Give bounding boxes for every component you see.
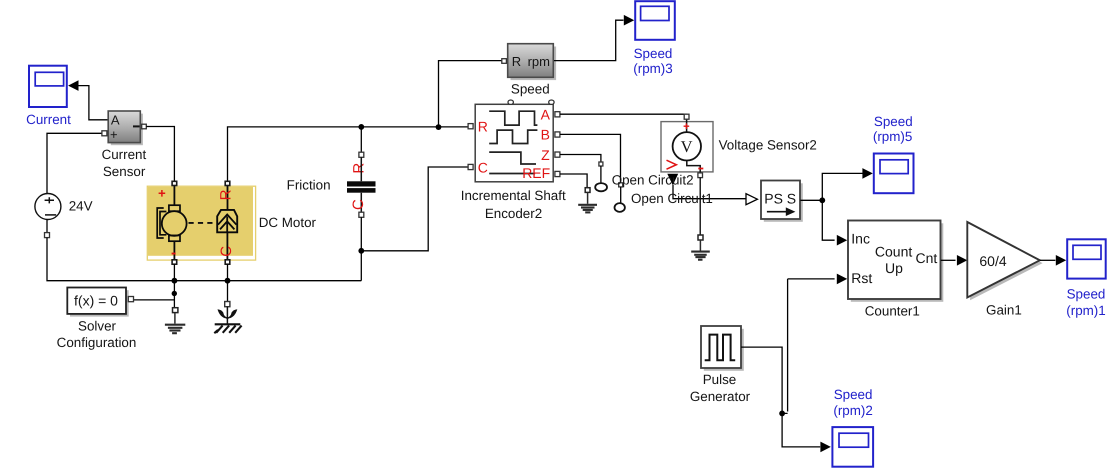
- svg-text:Gain1: Gain1: [986, 302, 1022, 317]
- svg-text:Count: Count: [875, 244, 912, 260]
- svg-text:REF: REF: [522, 165, 550, 181]
- pulse generator block: [690, 326, 751, 404]
- wire sensor A to Current scope: [78, 86, 108, 120]
- open circuit 1 port: [619, 183, 623, 187]
- wire encoder A to voltage sensor: [560, 113, 687, 115]
- solver port: [128, 297, 133, 302]
- scope Speed (rpm)3: [633, 1, 675, 76]
- svg-text:Rst: Rst: [851, 270, 872, 286]
- wire encoder REF to ground: [560, 174, 587, 187]
- svg-text:DC Motor: DC Motor: [259, 215, 317, 230]
- wire branch up to speed sensor: [439, 61, 502, 127]
- wire gain to scope1: [1040, 259, 1056, 261]
- wire 24V bottom stub: [46, 219, 48, 232]
- svg-text:Sensor: Sensor: [103, 164, 146, 179]
- DC Motor yellow block: [147, 186, 316, 260]
- junction at speed branch: [436, 124, 442, 130]
- svg-text:B: B: [541, 127, 550, 143]
- counter block shadow: [851, 223, 944, 301]
- wire sensor + to 24V source: [47, 133, 102, 195]
- wire counter to gain: [941, 259, 956, 261]
- ground port under REF: [585, 188, 590, 193]
- solver configuration block: [57, 288, 137, 351]
- motor port bottom-left: [172, 260, 177, 264]
- encoder port A: [555, 112, 560, 117]
- open circuit 1 stub: [620, 187, 622, 203]
- gain block Gain1: [967, 222, 1040, 317]
- counter block Counter1: [848, 221, 941, 319]
- open circuit 2 ellipse: [595, 183, 607, 191]
- motor wire top-right inside: [226, 185, 228, 259]
- wire sensor minus to motor + port: [146, 127, 174, 182]
- svg-text:Open Circuit1: Open Circuit1: [631, 191, 713, 206]
- junction friction to encoder C: [358, 248, 364, 254]
- svg-text:24V: 24V: [69, 198, 93, 213]
- speed sensor block shadow: [511, 47, 557, 81]
- wire to scope5: [822, 173, 862, 200]
- svg-text:Open Circuit2: Open Circuit2: [612, 173, 694, 188]
- voltage sensor block: [661, 120, 817, 173]
- svg-text:R: R: [512, 54, 521, 69]
- encoder port B: [555, 132, 560, 137]
- rotational converter shield: [217, 210, 237, 232]
- scope Current: [26, 66, 71, 127]
- svg-text:C: C: [218, 246, 235, 257]
- current sensor block shadow: [111, 114, 143, 146]
- svg-text:rpm: rpm: [528, 54, 550, 69]
- PS-Simulink converter input triangle: [746, 194, 757, 205]
- svg-text:(rpm)2: (rpm)2: [833, 403, 872, 418]
- motor label + red: [159, 190, 166, 197]
- port sensor plus: [102, 131, 107, 136]
- wire 24V to bottom bus: [47, 238, 174, 281]
- arrowhead into Inc: [837, 235, 847, 246]
- svg-text:Configuration: Configuration: [57, 335, 137, 350]
- svg-text:60/4: 60/4: [979, 253, 1006, 269]
- arrowhead into scope1: [1056, 255, 1066, 266]
- svg-text:Speed: Speed: [634, 46, 673, 61]
- motor shaft dashed link: [189, 222, 217, 224]
- svg-text:Friction: Friction: [287, 178, 331, 193]
- voltage sensor port plus: [684, 114, 689, 119]
- svg-text:Incremental Shaft: Incremental Shaft: [461, 188, 566, 203]
- friction damper bars: [347, 181, 376, 186]
- open circuit 2 port: [599, 162, 603, 166]
- arrowhead into Current scope: [68, 80, 78, 91]
- electrical reference ground (left): [165, 313, 185, 333]
- svg-text:Speed: Speed: [1067, 286, 1106, 301]
- open circuit 2 stub: [600, 166, 602, 183]
- open circuit 1 ellipse: [615, 203, 625, 212]
- svg-text:+: +: [110, 127, 118, 142]
- speed sensor block R rpm: [508, 44, 554, 97]
- friction stub to bars: [360, 157, 362, 213]
- wire speed sensor to scope3: [554, 20, 624, 60]
- junction solver: [172, 291, 177, 296]
- wire pulse generator output: [741, 347, 820, 447]
- wire voltage sensor minus to ground: [699, 178, 701, 235]
- svg-text:Speed: Speed: [511, 82, 550, 97]
- svg-text:R: R: [218, 189, 235, 200]
- svg-text:(rpm)3: (rpm)3: [633, 61, 672, 76]
- motor commutator top rect: [169, 205, 180, 211]
- mechanical rotational reference: [214, 307, 241, 334]
- electrical reference port (left): [173, 308, 178, 313]
- svg-text:Voltage Sensor2: Voltage Sensor2: [719, 137, 817, 152]
- svg-text:f(x) = 0: f(x) = 0: [74, 293, 118, 309]
- svg-text:Z: Z: [541, 147, 550, 163]
- solver configuration wire: [134, 299, 175, 301]
- arrowhead into scope3: [624, 15, 634, 26]
- scope Speed (rpm)1: [1066, 239, 1105, 317]
- gain shadow: [970, 225, 1043, 300]
- svg-text:Solver: Solver: [78, 319, 116, 334]
- svg-text:Inc: Inc: [851, 230, 870, 246]
- friction wire bottom to bus: [360, 217, 362, 280]
- port sensor minus: [142, 124, 147, 129]
- wire motor R port to encoder R: [228, 127, 468, 182]
- encoder port REF: [555, 171, 560, 176]
- wire PS S output: [800, 199, 822, 201]
- wire motor bottom-right to mech ground: [227, 264, 229, 301]
- svg-text:Encoder2: Encoder2: [485, 206, 542, 221]
- rotational converter chevrons: [218, 215, 236, 233]
- motor symbol circle: [162, 211, 187, 236]
- junction bus right: [225, 278, 231, 284]
- junction at friction top: [358, 124, 364, 130]
- wire bottom bus right: [174, 280, 361, 282]
- svg-text:Pulse: Pulse: [703, 372, 737, 387]
- svg-text:Up: Up: [885, 260, 903, 276]
- port 24V minus: [45, 233, 50, 238]
- motor label - red: [172, 253, 176, 255]
- svg-text:PS S: PS S: [764, 191, 796, 207]
- svg-text:C: C: [350, 199, 367, 210]
- speed sensor input port: [502, 59, 507, 64]
- svg-text:(rpm)1: (rpm)1: [1066, 303, 1105, 318]
- wire friction junction to encoder C port: [361, 167, 467, 251]
- wire rst: [782, 279, 835, 414]
- friction port top: [359, 152, 364, 157]
- voltage sensor PS output arrow: [667, 174, 678, 185]
- junction bus left: [172, 278, 178, 284]
- friction wire top: [360, 127, 362, 152]
- encoder port C: [468, 164, 473, 169]
- motor port top-left: [172, 181, 177, 185]
- mechanical rotational reference port: [225, 302, 230, 307]
- motor port bottom-right: [225, 260, 230, 264]
- electrical reference ground (REF): [578, 192, 597, 212]
- scope Speed (rpm)5: [873, 114, 914, 193]
- PS-Simulink converter block shadow: [764, 183, 803, 222]
- arrowhead into Rst: [837, 274, 847, 285]
- junction PS S output: [819, 197, 825, 203]
- voltage sensor port minus: [698, 173, 703, 178]
- svg-text:(rpm)5: (rpm)5: [873, 129, 912, 144]
- electrical reference ground (voltage sensor): [691, 240, 710, 260]
- svg-text:R: R: [351, 163, 368, 174]
- svg-text:C: C: [478, 160, 488, 176]
- wire PS signal to converter: [673, 185, 746, 199]
- motor commutator bottom rect: [169, 235, 180, 241]
- motor wire top-left inside: [173, 185, 175, 259]
- motor brush brackets: [157, 208, 166, 238]
- wire encoder B to open circuit 1: [560, 134, 621, 182]
- scope Speed (rpm)2: [832, 387, 873, 467]
- motor port top-right: [225, 181, 230, 185]
- arrowhead into gain: [957, 255, 967, 266]
- svg-text:A: A: [541, 106, 551, 122]
- svg-text:Current: Current: [26, 112, 71, 127]
- svg-text:A: A: [111, 112, 120, 127]
- junction pulse/rst: [779, 411, 785, 417]
- svg-text:V: V: [681, 137, 693, 156]
- voltage source V1 24V: [35, 194, 93, 220]
- encoder port Z: [555, 152, 560, 157]
- wire encoder Z to open circuit 2: [560, 155, 601, 162]
- svg-text:Speed: Speed: [834, 387, 873, 402]
- PS-Simulink converter block PS S: [761, 181, 800, 220]
- encoder port R: [468, 124, 473, 129]
- wire to counter Inc: [822, 200, 834, 240]
- svg-text:Speed: Speed: [874, 114, 913, 129]
- svg-text:Counter1: Counter1: [865, 304, 920, 319]
- ground port under voltage sensor: [698, 235, 703, 240]
- svg-text:Current: Current: [102, 147, 147, 162]
- arrowhead into scope2: [820, 442, 830, 453]
- pulse generator block shadow: [704, 329, 744, 371]
- current sensor block: [102, 111, 147, 179]
- svg-text:Cnt: Cnt: [916, 250, 938, 266]
- svg-text:Generator: Generator: [690, 389, 751, 404]
- svg-text:R: R: [478, 119, 488, 135]
- friction port bottom: [359, 212, 364, 217]
- incremental shaft encoder block: [461, 100, 566, 221]
- arrowhead into scope5: [862, 168, 872, 179]
- wire motor bottom-left to ground: [173, 264, 175, 307]
- solver configuration block shadow: [70, 290, 129, 316]
